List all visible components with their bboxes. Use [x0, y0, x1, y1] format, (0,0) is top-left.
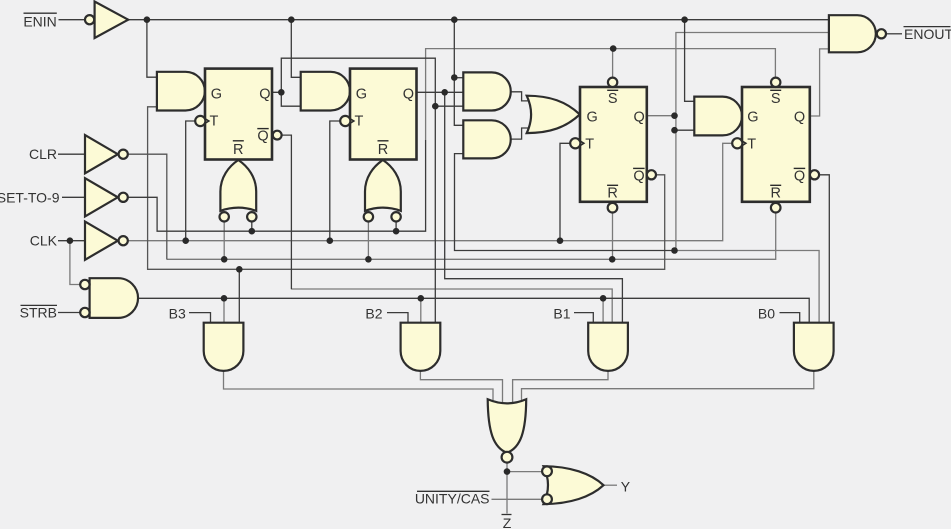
svg-text:G: G: [356, 86, 367, 102]
svg-text:ENIN: ENIN: [23, 13, 56, 29]
svg-text:SET-TO-9: SET-TO-9: [0, 189, 60, 205]
svg-text:B2: B2: [365, 306, 382, 322]
svg-text:UNITY/CAS: UNITY/CAS: [415, 491, 490, 507]
svg-text:B3: B3: [169, 306, 186, 322]
svg-text:Q: Q: [259, 86, 270, 102]
svg-text:G: G: [587, 109, 598, 125]
svg-text:T: T: [355, 113, 364, 129]
svg-text:Q: Q: [633, 169, 644, 185]
svg-text:T: T: [747, 137, 756, 153]
svg-text:STRB: STRB: [20, 305, 57, 321]
svg-text:R: R: [378, 142, 388, 158]
svg-text:CLK: CLK: [30, 233, 58, 249]
svg-text:B1: B1: [553, 306, 570, 322]
svg-text:T: T: [585, 137, 594, 153]
svg-text:Q: Q: [257, 129, 268, 145]
svg-text:B0: B0: [758, 306, 775, 322]
svg-text:R: R: [607, 186, 617, 202]
svg-text:CLR: CLR: [29, 146, 57, 162]
svg-text:Q: Q: [634, 109, 645, 125]
svg-text:Z: Z: [503, 515, 512, 529]
svg-text:Q: Q: [794, 109, 805, 125]
svg-text:Q: Q: [403, 86, 414, 102]
svg-text:Q: Q: [794, 169, 805, 185]
svg-text:T: T: [210, 113, 219, 129]
svg-text:G: G: [747, 109, 758, 125]
svg-text:R: R: [770, 186, 780, 202]
svg-text:S: S: [771, 91, 781, 107]
svg-text:R: R: [233, 142, 243, 158]
svg-text:Y: Y: [621, 478, 631, 494]
svg-text:S: S: [608, 91, 618, 107]
svg-text:G: G: [211, 86, 222, 102]
svg-text:ENOUT: ENOUT: [904, 26, 951, 42]
